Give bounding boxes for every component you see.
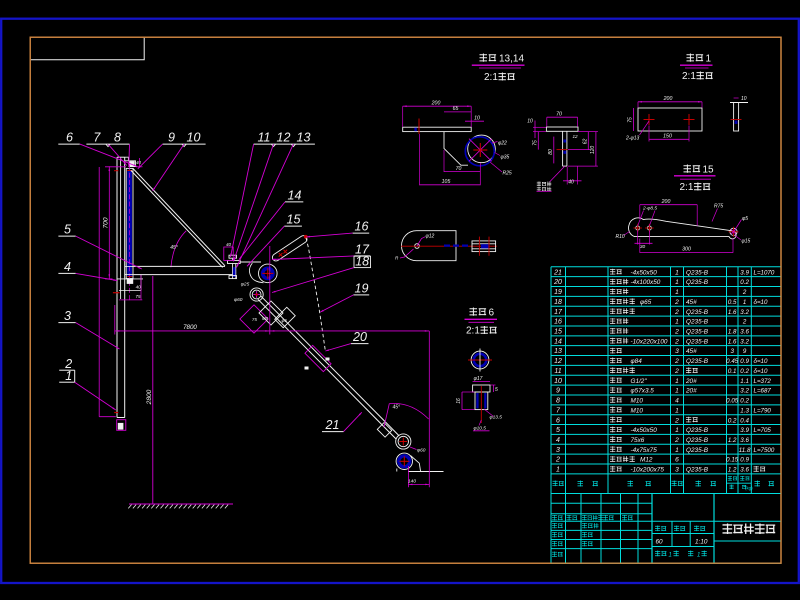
magenta group box around bolt <box>224 247 233 260</box>
svg-text:1: 1 <box>675 378 679 385</box>
svg-text:0.9: 0.9 <box>740 457 749 464</box>
svg-text:-4x75x75: -4x75x75 <box>631 447 658 454</box>
svg-text:L=7500: L=7500 <box>754 447 775 454</box>
svg-text:21: 21 <box>553 269 562 276</box>
svg-text:G1/2": G1/2" <box>631 378 648 385</box>
svg-text:19: 19 <box>355 281 369 295</box>
end dims <box>428 331 430 487</box>
svg-text:φ84: φ84 <box>631 358 643 365</box>
svg-text:14: 14 <box>554 338 562 345</box>
svg-text:2-φ8.5: 2-φ8.5 <box>642 206 657 212</box>
svg-text:3.2: 3.2 <box>740 309 749 316</box>
svg-text:1: 1 <box>556 467 560 474</box>
svg-text:1: 1 <box>743 299 746 306</box>
svg-text:6: 6 <box>556 417 560 424</box>
svg-text:2: 2 <box>674 309 679 316</box>
svg-text:δ=10: δ=10 <box>754 299 768 306</box>
svg-text:1.6: 1.6 <box>728 338 737 345</box>
svg-text:15: 15 <box>703 165 715 176</box>
svg-text:1: 1 <box>697 553 700 559</box>
svg-text:18: 18 <box>554 299 562 306</box>
svg-text:7800: 7800 <box>183 324 197 331</box>
svg-text:120: 120 <box>590 146 596 155</box>
svg-text:2: 2 <box>674 358 679 365</box>
svg-text:φ65: φ65 <box>640 299 652 306</box>
svg-text:4: 4 <box>675 398 679 405</box>
svg-text:40: 40 <box>226 242 232 247</box>
BOM header texts cyan <box>553 481 564 487</box>
svg-text:20#: 20# <box>685 378 697 385</box>
svg-text:Q235-B: Q235-B <box>686 329 709 336</box>
svg-text:11: 11 <box>554 368 561 375</box>
swivel top plate line <box>240 261 261 263</box>
svg-text:4: 4 <box>556 437 560 444</box>
collar at arm lower end <box>377 423 391 437</box>
svg-text:12: 12 <box>277 131 291 145</box>
svg-text:3.2: 3.2 <box>740 388 749 395</box>
side view note leader <box>550 166 565 182</box>
top-left attachment box (white) <box>31 38 144 60</box>
side view dims <box>547 116 578 118</box>
svg-text:φ15: φ15 <box>742 239 751 245</box>
svg-text:20#: 20# <box>685 388 697 395</box>
svg-text:Q235-B: Q235-B <box>686 319 709 326</box>
detail title 15 <box>684 165 701 173</box>
top mounting bracket part6 <box>125 157 129 161</box>
detail 1 dims <box>638 101 702 103</box>
svg-text:1: 1 <box>675 319 679 326</box>
svg-text:200: 200 <box>661 199 671 205</box>
svg-text:0.05: 0.05 <box>726 398 739 405</box>
svg-text:3: 3 <box>556 447 560 454</box>
svg-text:40: 40 <box>136 285 142 290</box>
svg-text:5: 5 <box>495 387 498 393</box>
svg-text:M12: M12 <box>640 457 653 464</box>
svg-text:1.2: 1.2 <box>728 437 737 444</box>
ground line <box>129 503 233 505</box>
svg-text:M10: M10 <box>631 398 644 405</box>
pivot leader phi12 <box>417 237 425 246</box>
svg-text:8: 8 <box>114 131 121 145</box>
svg-text:62: 62 <box>582 139 588 145</box>
svg-text:1.2: 1.2 <box>728 467 737 474</box>
svg-text:φ25: φ25 <box>241 282 250 288</box>
svg-text:1: 1 <box>65 369 72 383</box>
blue dashes on centerline <box>444 245 470 247</box>
slide channel part5 with blue rail <box>126 168 133 278</box>
svg-text:L=372: L=372 <box>754 378 772 385</box>
wall plate inner line <box>120 157 122 299</box>
svg-text:13: 13 <box>554 348 562 355</box>
svg-text:3.9: 3.9 <box>740 427 749 434</box>
svg-text:10: 10 <box>187 131 201 145</box>
svg-text:16: 16 <box>456 398 462 404</box>
svg-text:2: 2 <box>674 338 679 345</box>
svg-text:0.45: 0.45 <box>726 358 739 365</box>
svg-text:1: 1 <box>669 553 672 559</box>
horizontal arm part9 (square tube) <box>134 265 225 267</box>
nozzle boss blue <box>396 453 412 469</box>
svg-text:9: 9 <box>743 348 747 355</box>
svg-text:15: 15 <box>554 329 562 336</box>
svg-text:150: 150 <box>663 134 672 140</box>
svg-text:16: 16 <box>554 319 562 326</box>
svg-text:0.1: 0.1 <box>728 368 737 375</box>
svg-text:3.6: 3.6 <box>740 329 749 336</box>
svg-text:Q235-B: Q235-B <box>686 279 709 286</box>
svg-text:φ5: φ5 <box>742 216 748 222</box>
title block grid <box>550 494 552 564</box>
swivel white circle part17 <box>259 264 278 283</box>
pivot tube stadium outline <box>401 231 456 261</box>
svg-text:3: 3 <box>675 467 679 474</box>
svg-text:75: 75 <box>252 317 257 322</box>
lower bracket dims <box>105 278 113 280</box>
red ticks on channel <box>114 170 118 172</box>
arm end pin circles <box>396 434 411 449</box>
svg-text:Q235-B: Q235-B <box>686 447 709 454</box>
svg-text:70: 70 <box>456 166 462 172</box>
svg-text:Q235-B: Q235-B <box>686 467 709 474</box>
svg-text:13: 13 <box>297 131 311 145</box>
diagonal brace part10 <box>133 169 225 266</box>
svg-text:45#: 45# <box>686 348 697 355</box>
svg-text:Q235-B: Q235-B <box>686 427 709 434</box>
svg-text:14: 14 <box>288 188 302 202</box>
svg-text:75x6: 75x6 <box>631 437 645 444</box>
detail 13-14 plate <box>403 127 472 131</box>
svg-text:40: 40 <box>136 160 142 165</box>
title block left texts <box>552 515 563 520</box>
detail 13-14 dims <box>403 105 472 107</box>
svg-text:7: 7 <box>93 131 101 145</box>
column foot plate <box>117 417 125 419</box>
svg-text:15: 15 <box>287 213 301 227</box>
svg-text:65: 65 <box>453 106 459 112</box>
svg-text:δ=10: δ=10 <box>754 358 768 365</box>
svg-text:8: 8 <box>556 398 560 405</box>
BOM table grid <box>551 266 781 268</box>
svg-text:10: 10 <box>554 378 562 385</box>
bracket mini dim <box>139 158 141 167</box>
base line at nozzle <box>408 471 443 473</box>
svg-text:-10x200x75: -10x200x75 <box>631 467 665 474</box>
svg-text:105: 105 <box>442 179 451 185</box>
detail title 13-14 <box>480 54 497 62</box>
svg-text:1: 1 <box>675 289 679 296</box>
lower slide bracket <box>118 278 144 280</box>
svg-text:3.6: 3.6 <box>740 467 749 474</box>
svg-text:2: 2 <box>674 368 679 375</box>
svg-text:40: 40 <box>568 179 574 185</box>
svg-text:12: 12 <box>554 358 562 365</box>
svg-text:-10x220x100: -10x220x100 <box>631 338 668 345</box>
BOM header weight split line <box>727 482 752 484</box>
bracket cap plate part14 <box>228 260 241 263</box>
svg-text:3: 3 <box>730 348 734 355</box>
svg-text:0.15: 0.15 <box>726 457 739 464</box>
svg-text:Q235-B: Q235-B <box>686 269 709 276</box>
svg-text:2-φ13: 2-φ13 <box>625 136 639 142</box>
svg-text:1.8: 1.8 <box>728 329 737 336</box>
svg-text:17: 17 <box>554 309 563 316</box>
svg-text:1: 1 <box>706 54 712 65</box>
svg-text:45°: 45° <box>170 245 178 251</box>
detail title 1 <box>687 54 704 62</box>
detail 15 left holes <box>636 226 640 230</box>
svg-text:0.9: 0.9 <box>740 358 749 365</box>
svg-text:2:1: 2:1 <box>682 71 696 82</box>
svg-text:(kg): (kg) <box>745 486 753 491</box>
svg-text:21: 21 <box>325 418 340 432</box>
svg-text:2: 2 <box>742 319 747 326</box>
detail 15 paddle outline <box>629 218 737 239</box>
svg-text:M10: M10 <box>631 407 644 414</box>
left long extension line with L-foot <box>98 167 100 417</box>
svg-text:-4x100x50: -4x100x50 <box>631 279 661 286</box>
svg-text:200: 200 <box>663 96 673 102</box>
svg-text:2: 2 <box>674 299 679 306</box>
svg-text:13,14: 13,14 <box>499 54 524 65</box>
detail 6 top view circles <box>471 351 489 369</box>
wall dim 700 vertical <box>108 166 110 279</box>
svg-text:9: 9 <box>168 131 175 145</box>
svg-text:2: 2 <box>674 437 679 444</box>
svg-text:0.2: 0.2 <box>740 368 749 375</box>
svg-text:1: 1 <box>675 279 679 286</box>
svg-text:0.4: 0.4 <box>740 417 749 424</box>
svg-text:30: 30 <box>640 244 646 250</box>
detail 13-14 gusset <box>444 132 468 166</box>
rotated plates on arm near hub <box>240 305 268 333</box>
svg-text:L=1070: L=1070 <box>754 269 775 276</box>
svg-text:3.2: 3.2 <box>740 338 749 345</box>
svg-text:2: 2 <box>555 457 560 464</box>
svg-text:3: 3 <box>64 309 71 323</box>
svg-text:2: 2 <box>674 329 679 336</box>
svg-text:11.8: 11.8 <box>739 447 751 454</box>
svg-text:L=705: L=705 <box>754 427 772 434</box>
main arm part21 double line <box>261 296 399 436</box>
svg-text:Q235-B: Q235-B <box>686 309 709 316</box>
svg-text:φ60: φ60 <box>234 297 243 303</box>
svg-text:20: 20 <box>352 330 367 344</box>
svg-text:4: 4 <box>64 260 71 274</box>
svg-text:10: 10 <box>741 96 747 102</box>
svg-text:1:10: 1:10 <box>695 539 708 546</box>
svg-text:M8: M8 <box>262 316 269 321</box>
svg-text:3: 3 <box>675 348 679 355</box>
arm left end weld lines <box>125 265 134 267</box>
svg-text:9: 9 <box>556 388 560 395</box>
svg-text:20: 20 <box>553 279 562 286</box>
svg-text:1: 1 <box>675 427 679 434</box>
detail 13-14 leaders <box>492 142 498 144</box>
clamp bolt part12 below arm <box>232 264 234 279</box>
handle part16 stadium <box>271 234 308 262</box>
svg-text:0.2: 0.2 <box>740 279 749 286</box>
svg-text:200: 200 <box>431 100 441 106</box>
angle dim at collar 45deg <box>384 404 389 427</box>
svg-text:2:1: 2:1 <box>680 182 694 193</box>
svg-text:6: 6 <box>489 308 495 319</box>
svg-text:0.5: 0.5 <box>728 299 737 306</box>
svg-text:45#: 45# <box>686 299 697 306</box>
drawing title large <box>723 524 776 535</box>
detail title 6 <box>470 308 487 316</box>
svg-text:19: 19 <box>554 289 562 296</box>
svg-text:75: 75 <box>532 140 538 146</box>
svg-text:φ17: φ17 <box>474 376 483 382</box>
svg-text:2800: 2800 <box>146 389 153 405</box>
nozzle hook outline <box>411 456 421 472</box>
pivot bushing right <box>472 241 496 252</box>
svg-text:60: 60 <box>656 539 664 546</box>
detail 15 dims <box>640 204 697 206</box>
svg-text:11: 11 <box>258 131 271 145</box>
svg-text:1.1: 1.1 <box>740 378 749 385</box>
svg-text:φ12: φ12 <box>426 234 435 240</box>
svg-text:-4x50x50: -4x50x50 <box>631 269 658 276</box>
svg-text:16: 16 <box>355 220 369 234</box>
svg-text:700: 700 <box>103 217 110 228</box>
long horizontal dim 7800 <box>115 330 430 332</box>
svg-text:140: 140 <box>408 479 416 485</box>
svg-text:R75: R75 <box>714 204 723 210</box>
detail 13-14 boss circles <box>468 135 496 163</box>
svg-text:φ35: φ35 <box>501 155 510 161</box>
svg-text:1: 1 <box>675 407 679 414</box>
svg-text:5: 5 <box>64 223 71 237</box>
detail 13-14 side view plate <box>546 127 578 131</box>
svg-text:φ57x3.5: φ57x3.5 <box>631 388 655 395</box>
svg-text:1: 1 <box>675 447 679 454</box>
svg-text:2: 2 <box>742 289 747 296</box>
swivel housing outline <box>250 263 264 283</box>
svg-text:Q235-B: Q235-B <box>686 437 709 444</box>
svg-text:φ13.5: φ13.5 <box>490 415 503 421</box>
side view web double line <box>562 131 564 166</box>
svg-text:12: 12 <box>573 134 579 139</box>
svg-text:2:1: 2:1 <box>484 72 498 83</box>
detail 1 holes red crosses <box>644 119 655 121</box>
clamp collar part20 rotated rect <box>305 345 331 371</box>
center line of column to ground <box>152 276 154 504</box>
svg-text:6: 6 <box>675 457 679 464</box>
swivel blue bushing part18 <box>263 268 273 278</box>
svg-text:Q235-B: Q235-B <box>686 338 709 345</box>
svg-text:75: 75 <box>135 294 141 299</box>
svg-text:5: 5 <box>556 427 560 434</box>
svg-text:1: 1 <box>675 388 679 395</box>
callout underline V notches <box>106 144 110 147</box>
column part3 square tube (main view) <box>116 157 118 417</box>
title block middle texts <box>655 526 666 532</box>
svg-text:10: 10 <box>527 119 533 125</box>
svg-text:L=790: L=790 <box>754 407 772 414</box>
svg-text:-4x50x50: -4x50x50 <box>631 427 658 434</box>
detail 15 right hole <box>730 228 737 235</box>
svg-text:10: 10 <box>474 115 480 121</box>
svg-text:δ=10: δ=10 <box>754 368 768 375</box>
svg-text:φ60: φ60 <box>417 448 426 454</box>
gas spring dashed line part19 <box>306 238 326 352</box>
svg-text:0.2: 0.2 <box>728 417 737 424</box>
svg-text:1.6: 1.6 <box>728 309 737 316</box>
detail 6 dims <box>473 381 490 383</box>
svg-text:45°: 45° <box>393 405 401 411</box>
svg-text:Q235-B: Q235-B <box>686 358 709 365</box>
hub pivot circles <box>250 288 263 301</box>
svg-text:3.6: 3.6 <box>740 437 749 444</box>
pivot centerline red <box>401 245 497 247</box>
svg-text:R10: R10 <box>616 234 625 240</box>
svg-text:3.9: 3.9 <box>740 269 749 276</box>
svg-text:R25: R25 <box>503 171 512 177</box>
svg-text:300: 300 <box>682 247 691 253</box>
svg-text:2: 2 <box>674 417 679 424</box>
detail 6 front view bushing <box>473 385 490 392</box>
T-bolt part11 on top <box>229 255 237 258</box>
detail 1 side bar <box>730 102 748 104</box>
angle dim arc 45 <box>171 231 186 267</box>
svg-text:75: 75 <box>628 117 634 123</box>
svg-text:1.3: 1.3 <box>740 407 749 414</box>
svg-text:2:1: 2:1 <box>466 326 480 337</box>
svg-text:6: 6 <box>66 131 73 145</box>
svg-text:φ22: φ22 <box>498 141 507 147</box>
svg-text:1: 1 <box>675 269 679 276</box>
detail 1 plate <box>638 108 702 131</box>
pivot small circle <box>415 244 420 249</box>
svg-text:0.2: 0.2 <box>740 398 749 405</box>
svg-text:L=687: L=687 <box>754 388 772 395</box>
svg-text:70: 70 <box>556 111 562 117</box>
svg-text:80: 80 <box>548 149 554 155</box>
